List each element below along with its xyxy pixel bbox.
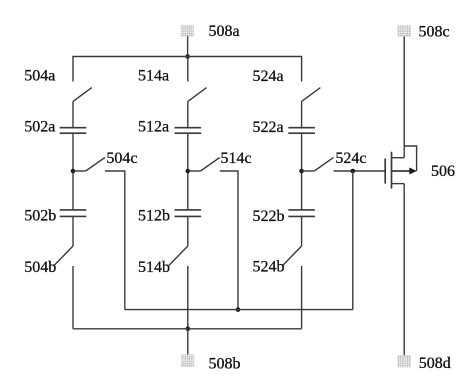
- capacitor 522a: [288, 128, 315, 134]
- wire source to 508d: [403, 184, 405, 356]
- svg-text:508c: 508c: [419, 23, 450, 40]
- svg-text:522a: 522a: [253, 119, 284, 136]
- node branch2: [186, 169, 191, 174]
- switch 504b: [54, 246, 73, 265]
- capacitor 512b: [175, 210, 202, 217]
- node branch3: [299, 169, 304, 174]
- terminal 508a: [181, 25, 194, 36]
- wire 514c right contact: [220, 171, 238, 310]
- svg-text:508b: 508b: [209, 356, 241, 373]
- wire 504b to bottom bus: [72, 266, 74, 329]
- switch 524b: [283, 246, 302, 265]
- node junction top rail / 514 branch: [185, 54, 190, 59]
- svg-text:524a: 524a: [253, 68, 284, 85]
- switch 504c: [73, 157, 105, 171]
- node branch1: [71, 169, 76, 174]
- svg-text:512a: 512a: [138, 119, 169, 136]
- svg-text:502a: 502a: [24, 119, 55, 136]
- svg-text:512b: 512b: [138, 208, 170, 225]
- wire 502a to node: [72, 133, 74, 210]
- svg-text:502b: 502b: [24, 208, 56, 225]
- svg-text:508a: 508a: [209, 23, 240, 40]
- svg-text:524b: 524b: [253, 259, 285, 276]
- wire bottom bus: [73, 328, 302, 330]
- svg-text:504c: 504c: [106, 150, 137, 167]
- wire 512a to node: [187, 133, 189, 210]
- capacitor 502a: [60, 128, 87, 134]
- wire 522a to node: [301, 133, 303, 210]
- wire c-bus: [125, 309, 353, 311]
- svg-text:504a: 504a: [24, 68, 55, 85]
- wire 522b to switch: [301, 216, 303, 246]
- svg-text:522b: 522b: [253, 208, 285, 225]
- wire gate node to c-bus: [352, 171, 354, 310]
- svg-text:524c: 524c: [335, 150, 366, 167]
- transistor 506 bulk arrow: [392, 168, 417, 175]
- wire top rail: [73, 57, 302, 82]
- transistor 506 bulk connection loop: [404, 146, 416, 171]
- switch 524c: [302, 157, 334, 171]
- wire bottom bus to 508b: [187, 329, 189, 355]
- wire 504c right contact: [105, 171, 125, 310]
- capacitor 512a: [175, 128, 202, 134]
- terminal 508b: [181, 355, 194, 367]
- capacitor 502b: [60, 210, 87, 217]
- wire 524c right contact / gate wire: [334, 170, 386, 172]
- wire 512b to switch: [187, 216, 189, 246]
- transistor 506 channel bar: [391, 152, 393, 189]
- svg-text:506: 506: [431, 163, 455, 180]
- capacitor 522b: [288, 210, 315, 217]
- svg-text:514a: 514a: [138, 68, 169, 85]
- transistor 506 gate bar: [384, 158, 386, 183]
- switch 514a: [188, 57, 207, 128]
- wire 508c to drain: [403, 37, 405, 158]
- wire 514b to bottom bus: [187, 266, 189, 329]
- junction gate wire: [351, 169, 356, 174]
- svg-text:504b: 504b: [24, 259, 56, 276]
- wire 508a to top rail: [187, 36, 189, 56]
- svg-text:514c: 514c: [221, 150, 252, 167]
- junction 514c on c-bus: [236, 307, 241, 312]
- wire 502b to switch: [72, 216, 74, 246]
- junction 514 branch on bottom bus: [186, 327, 191, 332]
- svg-text:514b: 514b: [138, 259, 170, 276]
- transistor 506 source stub: [392, 183, 405, 185]
- switch 514b: [169, 246, 188, 265]
- switch 514c: [188, 157, 220, 171]
- transistor 506 drain stub: [392, 157, 405, 159]
- terminal 508c: [398, 26, 411, 37]
- wire 524b to bottom bus: [301, 266, 303, 329]
- switch 524a: [302, 88, 321, 127]
- switch 504a: [73, 88, 92, 127]
- svg-text:508d: 508d: [419, 355, 451, 372]
- terminal 508d: [398, 355, 411, 367]
